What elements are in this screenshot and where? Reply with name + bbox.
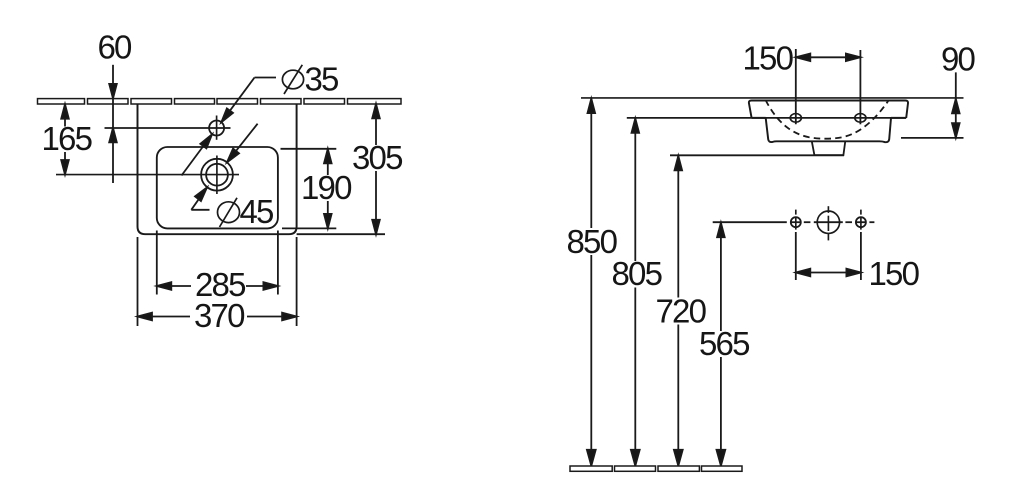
svg-text:60: 60 (98, 28, 133, 65)
drain pattern: center drain hole (817, 211, 839, 233)
dimension 805 (634, 118, 636, 465)
leader line D35 (182, 78, 277, 176)
tap hole center line (105, 127, 231, 129)
svg-text:190: 190 (301, 169, 352, 206)
basin outer outline (138, 104, 297, 234)
label D45 (218, 198, 240, 227)
tap hole vertical tick (216, 116, 218, 140)
tap hole left (ellipse) (790, 114, 801, 123)
dimension 150 bottom extension lines (795, 232, 797, 280)
dimension 190 reference lines (281, 148, 337, 150)
dimension 90 (955, 72, 957, 137)
dimension 165 (64, 104, 66, 174)
drain pattern reference line (565) (713, 221, 787, 223)
svg-text:150: 150 (869, 255, 920, 292)
drain pattern dashed center line (791, 221, 875, 223)
dimension 190 (327, 149, 329, 229)
dimension 285 extension lines (156, 231, 158, 295)
svg-text:35: 35 (305, 60, 339, 97)
tap holes reference line (805) (627, 117, 906, 119)
dimension 370 extension lines (137, 237, 139, 326)
drain hole vertical tick (216, 156, 218, 195)
svg-text:370: 370 (194, 297, 245, 334)
basin bottom reference line (90) (901, 137, 964, 139)
hidden bowl contour (dashed) (766, 100, 889, 139)
basin underside reference line (720) (670, 154, 844, 156)
svg-text:565: 565 (699, 325, 749, 362)
svg-text:150: 150 (743, 40, 794, 77)
svg-text:90: 90 (941, 41, 976, 78)
basin side profile (749, 101, 908, 143)
tap hole right (ellipse) (855, 114, 866, 123)
svg-text:805: 805 (612, 255, 662, 292)
rim reference line (850) (581, 97, 964, 99)
drain hole center line (56, 174, 239, 176)
dimension 720 (677, 156, 679, 466)
svg-text:305: 305 (352, 139, 402, 176)
svg-text:45: 45 (240, 193, 274, 230)
dimension 305 (375, 104, 377, 235)
dimension 285 (157, 285, 278, 287)
drain hole outer circle (201, 159, 233, 191)
drain hole inner circle (D45) (206, 164, 228, 186)
svg-text:720: 720 (656, 293, 707, 330)
basin bottom reference line extended right (297, 233, 385, 235)
svg-text:850: 850 (567, 223, 618, 260)
drain pattern: right fixing hole (856, 217, 866, 227)
tap hole circle (D35) (209, 121, 224, 136)
inner basin rounded rectangle (157, 147, 278, 228)
basin drain boss (trapezoid) (812, 142, 845, 155)
label D35 (282, 65, 303, 94)
floor section bar (segmented) (570, 466, 742, 471)
dimension 565 (720, 223, 722, 466)
dimension 370 (138, 316, 297, 318)
leader line D45 (191, 124, 257, 210)
drain pattern: left fixing hole (791, 217, 801, 227)
dimension 150 top extension lines (795, 49, 797, 124)
wall section bar (segmented) (38, 99, 402, 104)
dimension 850 (590, 99, 592, 466)
dimension 150 bottom (796, 272, 861, 274)
svg-text:165: 165 (42, 120, 92, 157)
dimension 60 (112, 65, 114, 183)
dimension 150 top (796, 56, 861, 58)
